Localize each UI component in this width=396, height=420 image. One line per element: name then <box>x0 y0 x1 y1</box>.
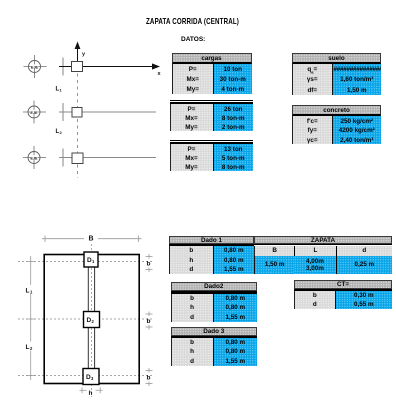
footing outline rect <box>44 255 139 384</box>
dado D1 box <box>84 252 98 267</box>
axis grid circle EJE row2 <box>23 101 46 124</box>
footing plan: centerline D1 <box>18 261 153 263</box>
svg-text:2: 2 <box>60 130 63 135</box>
svg-text:L: L <box>26 288 30 295</box>
b dimension at D1 <box>146 254 153 272</box>
svg-text:B: B <box>89 235 94 242</box>
wall grid tick row3 <box>62 149 64 167</box>
svg-text:y: y <box>82 52 86 58</box>
title <box>146 16 239 26</box>
table ZAPATA <box>254 236 392 274</box>
column square row3 <box>72 153 83 164</box>
svg-text:EJE: EJE <box>31 65 39 69</box>
dado D3 box <box>83 369 99 385</box>
column centerline dashed <box>77 67 79 178</box>
column square row1 <box>72 62 83 72</box>
x axis <box>59 63 162 77</box>
svg-text:h: h <box>89 390 93 397</box>
h dimension <box>80 387 103 393</box>
left dimension line <box>26 256 36 380</box>
wall strip right line <box>94 267 96 312</box>
table Dado 1 <box>169 236 254 274</box>
footing plan: centerline D3 <box>18 375 153 377</box>
svg-text:b: b <box>147 375 151 382</box>
dado D2 box <box>84 312 100 328</box>
table cargas eje 3 <box>170 140 254 171</box>
svg-text:x: x <box>158 71 162 77</box>
b dimension at D2 <box>146 312 153 330</box>
b dimension at D3 <box>146 368 153 386</box>
table concreto <box>292 105 381 145</box>
svg-text:EJE: EJE <box>30 111 38 115</box>
axis grid circle EJE row3 <box>23 146 46 169</box>
table cargas eje 2 <box>170 100 254 131</box>
table CT <box>294 280 392 309</box>
column square row2 <box>72 108 82 118</box>
table Dado2 <box>171 282 258 322</box>
svg-text:b: b <box>147 318 151 325</box>
wall grid tick row2 <box>62 103 64 121</box>
beam line row2 <box>59 111 156 113</box>
svg-text:b: b <box>147 261 151 268</box>
footing plan: vertical centerline <box>90 244 92 397</box>
DATOS label <box>181 36 205 43</box>
svg-text:1: 1 <box>60 87 63 92</box>
svg-text:EJE: EJE <box>30 156 38 160</box>
y axis <box>75 42 86 67</box>
table suelo <box>292 53 381 95</box>
svg-text:L: L <box>26 344 30 351</box>
axis grid circle EJE row1 <box>24 55 47 78</box>
beam line row3 <box>59 157 156 159</box>
table Dado 3 <box>171 327 258 366</box>
footing plan: centerline D2 <box>18 318 153 320</box>
table cargas <box>172 53 252 94</box>
B dimension <box>42 235 142 242</box>
wall strip left line <box>87 267 89 312</box>
label L2 plan <box>25 342 37 352</box>
wall grid tick row1 <box>62 58 64 76</box>
label L1 plan <box>25 285 37 295</box>
